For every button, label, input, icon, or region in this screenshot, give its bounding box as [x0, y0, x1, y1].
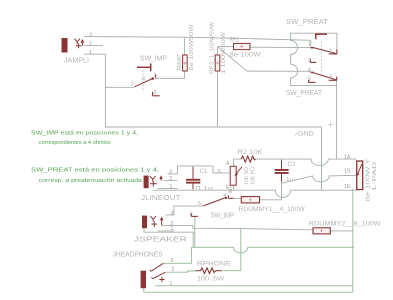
- svg-text:4: 4: [224, 193, 227, 199]
- svg-text:2: 2: [131, 81, 134, 87]
- svg-text:1: 1: [89, 50, 92, 56]
- svg-text:1A: 1A: [344, 154, 351, 160]
- svg-text:8e 100W: 8e 100W: [230, 53, 261, 59]
- wire SW_IMP2 pin6 drop: [194, 217, 196, 247]
- wire RP1 right to SW_PREAT pin1: [250, 46, 311, 48]
- wire RIMP bottom to SW_IMP pin1: [156, 71, 185, 78]
- svg-text:1: 1: [169, 281, 172, 287]
- svg-text:1 100W50W: 1 100W50W: [221, 31, 227, 74]
- wire GND bus horizontal: [105, 126, 321, 128]
- svg-text:SW_IMP: SW_IMP: [211, 213, 235, 220]
- wire SW_PREAT loop pin2 up over top and down left side with hops: [291, 33, 337, 85]
- connector JLINEOUT: [144, 176, 149, 189]
- svg-text:3: 3: [89, 32, 92, 38]
- connector JSPEAKER: [142, 216, 147, 229]
- svg-text:corresp. a preatenuación activ: corresp. a preatenuación activada: [39, 178, 143, 184]
- svg-text:10K PO: 10K PO: [251, 167, 257, 185]
- wire JSPEAKER sleeve down and right: [144, 228, 193, 247]
- svg-text:SW_PREAT: SW_PREAT: [286, 17, 328, 26]
- wire JHEADPHONES pin2 to RPHONE: [166, 271, 196, 272]
- resistor RP1: [234, 43, 251, 49]
- wire JLINEOUT pin2 stub: [164, 180, 177, 182]
- svg-text:8e 100W Y: 8e 100W Y: [366, 158, 372, 202]
- svg-text:correspondientes a 4 ohmios: correspondientes a 4 ohmios: [39, 140, 111, 146]
- svg-text:5: 5: [198, 201, 201, 207]
- svg-text:R2 10K: R2 10K: [238, 150, 263, 156]
- svg-text:3: 3: [169, 170, 172, 176]
- wire pot A lead: [233, 159, 235, 166]
- svg-text:2: 2: [89, 41, 92, 47]
- svg-text:6: 6: [330, 74, 333, 80]
- wire RDUMMY2 right lead: [330, 230, 353, 232]
- wire JLINEOUT pin3 route to pot S: [168, 166, 230, 174]
- wire GND vertical drop: [321, 127, 323, 190]
- potentiometer: [230, 166, 236, 185]
- svg-text:JLINEOUT: JLINEOUT: [141, 195, 181, 202]
- wire node junction to RP1 left: [218, 46, 234, 48]
- svg-text:SW_PREAT está en posiciones 1: SW_PREAT está en posiciones 1 y 4,: [31, 168, 160, 174]
- wire SW_IMP2 pin4 to RDUMMY1: [233, 197, 241, 199]
- origin cross: [328, 122, 333, 127]
- wire JHEADPHONES pin1 to right bus: [155, 285, 353, 287]
- svg-text:RDUMMY2__8_100W: RDUMMY2__8_100W: [309, 220, 382, 227]
- resistor RDUMMY2: [313, 228, 330, 234]
- resistor RDUMMY1: [241, 197, 259, 203]
- svg-text:100 .5W: 100 .5W: [197, 277, 224, 283]
- svg-text:3: 3: [170, 258, 173, 264]
- svg-text:1u: 1u: [286, 177, 293, 183]
- svg-text:1: 1: [308, 42, 311, 48]
- svg-text:SW_IMP está en posiciones 1 y: SW_IMP está en posiciones 1 y 4,: [31, 131, 139, 137]
- svg-text:C1: C1: [200, 169, 209, 175]
- switch SW_IMP gang2: [230, 187, 232, 195]
- L-PAD attenuator: [357, 161, 363, 190]
- svg-text:L-PAD: L-PAD: [372, 162, 378, 190]
- wire RP3 top lead: [217, 47, 219, 55]
- svg-text:JHEADPHONES: JHEADPHONES: [113, 252, 163, 259]
- wire C2 bottom to L-PAD 1S with hop: [281, 174, 283, 182]
- svg-text:C2: C2: [288, 162, 297, 168]
- svg-text:RPHONE: RPHONE: [197, 261, 232, 268]
- wire RDUMMY1 right lead up to C2 bottom: [260, 183, 282, 200]
- svg-text:1E: 1E: [344, 184, 351, 190]
- svg-text:RIMP: RIMP: [177, 54, 183, 70]
- wire right bus vertical: [352, 189, 354, 292]
- wire JHEADPHONES sleeve bottom: [144, 288, 353, 292]
- svg-text:2: 2: [171, 267, 174, 273]
- svg-text:GND: GND: [298, 132, 315, 138]
- wire JAMPLI pin3 to SW_PREAT pin1: [84, 37, 311, 47]
- wire GND rail to L-PAD 1E with hop: [153, 190, 357, 197]
- svg-text:SW_PREAT: SW_PREAT: [286, 88, 322, 97]
- svg-text:1: 1: [154, 73, 157, 79]
- wire JSPEAKER pin2 to RDUMMY2: [162, 225, 313, 229]
- svg-text:2: 2: [169, 176, 172, 182]
- wire RPHONE right lead: [216, 270, 241, 272]
- wire RP3 bottom lead to GND: [217, 71, 219, 127]
- svg-text:4: 4: [308, 68, 311, 74]
- svg-text:10K SO: 10K SO: [244, 167, 250, 185]
- wire JHEADPHONES pin3 stub and riser: [164, 247, 192, 263]
- svg-text:3: 3: [154, 90, 157, 96]
- wire R2 right to L-PAD 1A with hop: [256, 159, 357, 166]
- svg-text:1S: 1S: [344, 169, 351, 175]
- wire JSPEAKER pin1 stub: [158, 230, 175, 232]
- wire bottom bus y247 with hop over RPHONE riser: [191, 247, 354, 253]
- svg-text:JAMPLI: JAMPLI: [64, 58, 89, 65]
- svg-text:0.1u: 0.1u: [196, 186, 214, 192]
- wire pot E lead: [233, 185, 235, 190]
- wire diagonal to SW_PREAT pin4: [218, 47, 311, 72]
- wire C1 top lead: [192, 166, 194, 168]
- wire SW_PREAT pin6 down to L-PAD 1A: [336, 80, 338, 158]
- wire C1 bottom lead: [192, 184, 194, 190]
- wire JAMPLI pin2 stub: [84, 45, 103, 47]
- wire RPHONE riser: [240, 229, 242, 271]
- svg-text:RP3_1_100W50W: RP3_1_100W50W: [210, 21, 216, 74]
- svg-text:1: 1: [169, 184, 172, 190]
- wire JAMPLI pin1 stub: [84, 53, 105, 55]
- wire vertical jack sleeve down to GND bus: [104, 54, 106, 127]
- svg-text:1: 1: [170, 226, 173, 232]
- wire C2 top lead: [281, 159, 283, 161]
- resistor RIMP: [183, 55, 188, 71]
- wire JSPEAKER pin3 route to SW_IMP2 pin5: [165, 206, 203, 215]
- svg-text:3: 3: [170, 211, 173, 217]
- connector JAMPLI: [62, 38, 68, 53]
- wire JLINEOUT pin1 stub: [158, 188, 178, 190]
- svg-text:SW_IMP: SW_IMP: [140, 56, 167, 63]
- resistor RP3: [215, 55, 220, 71]
- wire R2 left lead: [234, 158, 242, 160]
- wire RIMP top lead: [184, 37, 186, 55]
- svg-text:RP1: RP1: [230, 38, 240, 44]
- svg-text:8e 100W50W: 8e 100W50W: [189, 23, 195, 70]
- svg-text:JSPEAKER: JSPEAKER: [134, 236, 187, 243]
- wire SW_IMP common: [105, 86, 134, 88]
- svg-text:RDUMMY1__4_100W: RDUMMY1__4_100W: [239, 206, 306, 213]
